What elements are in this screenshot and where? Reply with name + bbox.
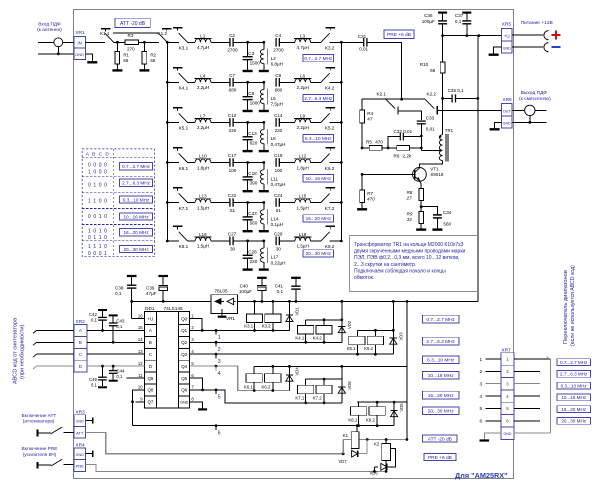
inductor L17 shunt bbox=[263, 241, 265, 248]
junction K1 segment bbox=[366, 438, 369, 441]
ground L8 bbox=[259, 150, 269, 152]
relay coil K5.2 bbox=[367, 336, 383, 345]
label box PRE +6 dB bbox=[384, 30, 414, 39]
svg-text:270: 270 bbox=[127, 46, 135, 51]
svg-text:Переключатель диапазонов: Переключатель диапазонов bbox=[563, 270, 569, 344]
ground C23 bbox=[243, 230, 253, 232]
svg-text:1,5µH: 1,5µH bbox=[197, 244, 209, 249]
ground R9 bbox=[416, 228, 426, 230]
wire XR7 pin 1 left bbox=[486, 358, 502, 360]
relay coil K3.1 bbox=[246, 314, 262, 323]
wire C31 to corner bbox=[367, 42, 402, 99]
svg-text:4: 4 bbox=[479, 394, 482, 399]
svg-text:6: 6 bbox=[218, 430, 221, 436]
wire K5.1 to L7 bbox=[188, 121, 196, 123]
wire +12V vertical drop bbox=[477, 36, 479, 302]
wire GND pin bbox=[199, 402, 203, 409]
relay coil K7.2 bbox=[316, 385, 332, 394]
svg-text:3: 3 bbox=[479, 382, 482, 387]
svg-text:2,2µH: 2,2µH bbox=[197, 125, 209, 130]
wire C7 to shunt bbox=[233, 81, 264, 83]
wire bus to K7.1 bbox=[167, 202, 179, 204]
inductor L5 shunt bbox=[263, 82, 265, 89]
svg-text:680: 680 bbox=[229, 88, 237, 93]
svg-text:C33: C33 bbox=[426, 115, 435, 120]
wire XR2 C to DD1 bbox=[87, 353, 136, 355]
table band box 0.7...2.7 MHz bbox=[120, 163, 153, 170]
wire K6.2 to right bus bbox=[330, 162, 342, 164]
svg-text:K4.2: K4.2 bbox=[325, 86, 335, 91]
capacitor C13 shunt bbox=[247, 122, 249, 136]
junction VD4 bbox=[288, 365, 291, 368]
svg-text:VD2: VD2 bbox=[347, 320, 352, 329]
switch ATT bbox=[37, 430, 39, 437]
svg-text:K6.2: K6.2 bbox=[262, 384, 271, 389]
relay contact K7.1 bbox=[173, 187, 183, 189]
svg-text:K2.2: K2.2 bbox=[427, 92, 437, 97]
junction K6.2 bbox=[271, 365, 274, 368]
svg-text:220: 220 bbox=[275, 128, 283, 133]
svg-text:1,5µH: 1,5µH bbox=[197, 205, 209, 210]
junction K5.1 bbox=[356, 353, 359, 356]
ground R2 bbox=[139, 69, 149, 71]
svg-text:GND: GND bbox=[503, 122, 512, 126]
junction K1 top bbox=[356, 424, 359, 427]
junction emitter chain bbox=[420, 205, 423, 208]
relay coil K2 bbox=[382, 443, 391, 460]
wire R10 line bbox=[442, 36, 444, 62]
svg-text:двумя скрученными медными пров: двумя скрученными медными проводами марк… bbox=[354, 249, 466, 255]
capacitor C8 shunt bbox=[247, 82, 249, 96]
ground DD1 bbox=[198, 408, 207, 410]
svg-text:1,5µH: 1,5µH bbox=[297, 205, 309, 210]
ground R1 bbox=[112, 69, 122, 71]
junction R5 R6 bbox=[361, 147, 364, 150]
wire XR7 pin 2 left bbox=[486, 370, 502, 372]
junction line B cap bbox=[112, 341, 115, 344]
svg-text:0,47µH: 0,47µH bbox=[271, 182, 286, 187]
table band box 16...20 MHz bbox=[120, 229, 153, 236]
junction K7.2 bbox=[323, 378, 326, 381]
wire emitter to R8 bbox=[420, 181, 422, 184]
junction shunt inductor row K5 bbox=[262, 121, 265, 124]
svg-text:1 1 1 0: 1 1 1 0 bbox=[88, 244, 108, 250]
wire L6 to K4.2 bbox=[311, 81, 321, 83]
svg-text:C43: C43 bbox=[116, 319, 125, 324]
band label 0.7...2.7 MHz bbox=[303, 55, 334, 62]
svg-text:GND: GND bbox=[503, 47, 512, 51]
capacitor C3 shunt bbox=[247, 42, 249, 56]
svg-text:C44: C44 bbox=[116, 369, 125, 374]
svg-text:ATT: ATT bbox=[76, 430, 84, 435]
svg-text:Q2: Q2 bbox=[181, 340, 187, 345]
svg-text:2,2k: 2,2k bbox=[403, 154, 412, 159]
inductor L2 shunt bbox=[263, 42, 265, 49]
wire input C bbox=[37, 353, 74, 355]
junction line D cap1 bbox=[101, 365, 104, 368]
table band box 2.7...6.3 MHz bbox=[120, 179, 153, 186]
label box ATT mid bbox=[423, 435, 457, 442]
band select box 16...20 MHz bbox=[557, 406, 591, 413]
svg-text:100: 100 bbox=[275, 168, 283, 173]
wire left bus bbox=[166, 42, 168, 241]
junction line A cap bbox=[101, 329, 104, 332]
wire right bus bbox=[340, 42, 342, 241]
wire C22 to shunt bbox=[233, 202, 264, 204]
svg-text:(если не используется АВСD код: (если не используется АВСD код) bbox=[570, 265, 576, 346]
note box transformer bbox=[350, 234, 478, 236]
wire L7 to C12 bbox=[211, 121, 230, 123]
junction C38 bbox=[130, 300, 133, 303]
wire K5.2 to right bus bbox=[330, 121, 342, 123]
svg-text:10: 10 bbox=[138, 385, 143, 390]
wire XR6 GND right bbox=[512, 121, 547, 123]
wire L15 to K7.2 bbox=[311, 202, 321, 204]
junction C33 C32 bbox=[420, 135, 423, 138]
wire XR5 +U right bbox=[512, 34, 543, 36]
svg-text:20...30 MHz: 20...30 MHz bbox=[428, 409, 454, 415]
switch PRE bbox=[37, 462, 39, 469]
wire L18 to K8.2 bbox=[311, 240, 321, 242]
svg-text:C22: C22 bbox=[228, 193, 237, 198]
svg-text:0,1: 0,1 bbox=[277, 289, 284, 294]
svg-text:XR6: XR6 bbox=[502, 97, 512, 103]
svg-text:C34: C34 bbox=[443, 210, 452, 215]
svg-text:0,1: 0,1 bbox=[115, 291, 122, 296]
svg-text:K7.1: K7.1 bbox=[295, 396, 304, 401]
svg-text:АВСD код от синтезатора: АВСD код от синтезатора bbox=[13, 317, 19, 384]
svg-text:10...16 MHz: 10...16 MHz bbox=[123, 214, 149, 219]
junction R2 tap bbox=[143, 41, 146, 44]
svg-text:0.7...2.7 MHz: 0.7...2.7 MHz bbox=[122, 164, 151, 169]
wire K7.1 to L13 bbox=[188, 202, 196, 204]
plus symbol bbox=[552, 34, 561, 36]
svg-text:0.7...2.7 MHz: 0.7...2.7 MHz bbox=[426, 317, 455, 323]
wire +12V bus top bbox=[443, 35, 502, 37]
svg-text:GND: GND bbox=[76, 420, 85, 424]
junction left bus row K7 bbox=[166, 201, 169, 204]
wire base bbox=[362, 173, 415, 175]
svg-text:27: 27 bbox=[406, 195, 413, 200]
wire K5 top link bbox=[358, 329, 394, 331]
svg-text:K1: K1 bbox=[343, 433, 349, 438]
junction right bus row K8 bbox=[340, 240, 343, 243]
svg-text:10...16 MHz: 10...16 MHz bbox=[428, 373, 454, 379]
junction shunt inductor row K7 bbox=[262, 201, 265, 204]
wire L4 to C7 bbox=[211, 81, 230, 83]
svg-text:4,7µH: 4,7µH bbox=[197, 45, 209, 50]
junction right bus row K6 bbox=[340, 161, 343, 164]
svg-text:220: 220 bbox=[250, 259, 258, 264]
band select box 6.3...10 MHz bbox=[557, 382, 591, 389]
svg-text:51: 51 bbox=[276, 208, 282, 213]
band select box 10...16 MHz bbox=[557, 394, 591, 401]
svg-text:30: 30 bbox=[276, 246, 282, 251]
junction VD8 bbox=[340, 365, 343, 368]
diode VD4 bbox=[288, 366, 290, 390]
svg-text:15: 15 bbox=[138, 325, 143, 330]
svg-text:OUT: OUT bbox=[503, 110, 512, 114]
ground XR1 bbox=[87, 61, 97, 63]
relay coil K6.2 bbox=[265, 374, 281, 383]
svg-text:R8: R8 bbox=[407, 190, 413, 195]
band select box 20...30 MHz bbox=[557, 418, 591, 425]
svg-text:C40: C40 bbox=[240, 283, 249, 288]
net 2 wire bbox=[199, 341, 342, 343]
svg-text:VR1: VR1 bbox=[226, 316, 235, 321]
junction K3.2 bus bbox=[272, 300, 275, 303]
svg-text:1: 1 bbox=[479, 357, 482, 362]
svg-text:XR5: XR5 bbox=[502, 21, 512, 27]
capacitor C23 shunt bbox=[247, 203, 249, 217]
svg-text:2.7...6.3 MHz: 2.7...6.3 MHz bbox=[426, 339, 455, 345]
svg-text:2700: 2700 bbox=[227, 48, 238, 53]
svg-text:K4.1: K4.1 bbox=[179, 86, 189, 91]
svg-text:68: 68 bbox=[123, 58, 128, 63]
wire input top bbox=[38, 41, 54, 43]
ground L5 bbox=[259, 110, 269, 112]
svg-text:2...3 скрутки на сантиметр.: 2...3 скрутки на сантиметр. bbox=[354, 262, 416, 268]
junction shunt cap row K6 bbox=[246, 161, 249, 164]
net 3 wire bbox=[199, 353, 393, 355]
wire XR7 pin 4 right bbox=[514, 395, 540, 397]
svg-text:C3: C3 bbox=[248, 51, 254, 56]
svg-text:Питание +12В: Питание +12В bbox=[521, 20, 553, 26]
wire C24 to L15 bbox=[279, 202, 295, 204]
band label 20...30 MHz bbox=[303, 250, 334, 257]
relay coil K8.1 bbox=[351, 407, 367, 416]
junction shunt cap row K3 bbox=[246, 41, 249, 44]
svg-text:L9: L9 bbox=[300, 113, 306, 118]
junction K7.1 bbox=[304, 401, 307, 404]
svg-text:12: 12 bbox=[138, 361, 143, 366]
junction K6.1 bbox=[253, 389, 256, 392]
svg-text:20...30 MHz: 20...30 MHz bbox=[306, 251, 332, 256]
svg-text:220: 220 bbox=[229, 128, 237, 133]
capacitor C34 bbox=[421, 207, 437, 215]
svg-text:Q9: Q9 bbox=[147, 376, 153, 381]
inductor L8 shunt bbox=[263, 122, 265, 129]
wire XR7 switch common bbox=[550, 359, 552, 433]
junction +12 drop bbox=[406, 300, 409, 303]
svg-text:C17: C17 bbox=[228, 153, 237, 158]
svg-text:6.3...10 MHz: 6.3...10 MHz bbox=[427, 358, 455, 364]
svg-text:B: B bbox=[79, 340, 82, 345]
wire XR7 pin 3 left bbox=[486, 383, 502, 385]
svg-text:(к антенне): (к антенне) bbox=[37, 27, 62, 33]
net3 number bbox=[215, 353, 218, 356]
resistor R4 bbox=[361, 99, 363, 110]
svg-text:0.7...2.7 MHz: 0.7...2.7 MHz bbox=[304, 56, 333, 61]
junction VD2 bbox=[340, 300, 343, 303]
wire XR2 A to DD1 bbox=[87, 329, 136, 331]
wire XR5 GND right bbox=[512, 46, 543, 48]
resistor R1 bbox=[116, 42, 118, 51]
svg-text:R6: R6 bbox=[394, 154, 400, 159]
svg-text:78L05: 78L05 bbox=[214, 289, 228, 295]
svg-text:Включение PRE: Включение PRE bbox=[22, 446, 58, 452]
net 6 wire bbox=[133, 425, 395, 427]
wire XR7 pin 5 left bbox=[486, 407, 502, 409]
wire K4 top link bbox=[306, 319, 342, 321]
junction Q0Q1 bbox=[201, 329, 204, 332]
svg-text:2,2µH: 2,2µH bbox=[297, 85, 309, 90]
svg-text:K6.1: K6.1 bbox=[244, 384, 253, 389]
junction K2 bottom bbox=[385, 470, 388, 473]
svg-text:C2: C2 bbox=[229, 33, 235, 38]
net 1 wire bbox=[199, 329, 290, 331]
svg-text:C37: C37 bbox=[455, 13, 464, 18]
wire ATT bypass top bbox=[113, 32, 158, 34]
svg-text:K7.2: K7.2 bbox=[325, 206, 335, 211]
relay contact K4.1 bbox=[173, 67, 183, 69]
svg-text:Q7: Q7 bbox=[147, 400, 153, 405]
svg-text:820: 820 bbox=[250, 141, 258, 146]
svg-text:GND: GND bbox=[76, 453, 85, 457]
svg-text:0,1: 0,1 bbox=[116, 324, 123, 329]
svg-text:0,01: 0,01 bbox=[426, 127, 435, 132]
svg-text:0,1: 0,1 bbox=[91, 317, 98, 322]
svg-text:ATT -20 dB: ATT -20 dB bbox=[428, 436, 452, 442]
svg-text:K3.1: K3.1 bbox=[244, 324, 253, 329]
net4 number bbox=[215, 365, 218, 368]
junction C35 to +12 drop bbox=[476, 97, 479, 100]
svg-text:K3.2: K3.2 bbox=[262, 324, 271, 329]
wire C2 to shunt bbox=[233, 41, 264, 43]
wire XR7 pin 2 right bbox=[514, 370, 540, 372]
svg-text:2700: 2700 bbox=[273, 48, 284, 53]
svg-text:K6.1: K6.1 bbox=[179, 166, 189, 171]
junction right bus row K7 bbox=[340, 201, 343, 204]
wire K7 top link bbox=[306, 378, 342, 380]
svg-text:Q6: Q6 bbox=[181, 388, 187, 393]
svg-text:2: 2 bbox=[218, 347, 221, 353]
svg-text:14: 14 bbox=[138, 337, 143, 342]
junction right bus row K4 bbox=[340, 81, 343, 84]
svg-text:100: 100 bbox=[229, 168, 237, 173]
svg-text:0 0 1 0: 0 0 1 0 bbox=[88, 214, 108, 220]
svg-text:Вход ПДФ: Вход ПДФ bbox=[38, 22, 61, 28]
band label mid 20...30 MHz bbox=[423, 407, 459, 415]
junction left bus row K3 bbox=[166, 41, 169, 44]
wire XR6 OUT right bbox=[512, 109, 525, 111]
wire C12 to shunt bbox=[233, 121, 264, 123]
svg-text:GND: GND bbox=[180, 401, 189, 405]
svg-text:C4: C4 bbox=[275, 33, 281, 38]
ground C18 bbox=[243, 190, 253, 192]
svg-text:68: 68 bbox=[150, 58, 155, 63]
svg-text:1 1 0 0: 1 1 0 0 bbox=[88, 198, 108, 204]
net 5 wire bbox=[199, 390, 342, 403]
wire L13 to C22 bbox=[211, 202, 230, 204]
svg-text:Q5: Q5 bbox=[181, 376, 187, 381]
svg-text:C41: C41 bbox=[275, 283, 284, 288]
svg-text:B: B bbox=[149, 340, 152, 345]
svg-text:C42: C42 bbox=[89, 312, 98, 317]
wire XR7 pin 6 right bbox=[514, 420, 540, 422]
junction C36 bus bbox=[441, 34, 444, 37]
junction Q7 bbox=[131, 400, 134, 403]
svg-text:обмоток.: обмоток. bbox=[354, 275, 374, 281]
svg-text:68: 68 bbox=[430, 68, 436, 73]
relay contact K3.1 bbox=[173, 27, 183, 29]
wire XR4 GND stub bbox=[86, 453, 92, 455]
junction shunt inductor row K8 bbox=[262, 240, 265, 243]
table band box 20...30 MHz bbox=[120, 246, 153, 253]
ground XR5 bbox=[494, 47, 502, 54]
table band box 10...16 MHz bbox=[120, 213, 153, 220]
svg-text:390: 390 bbox=[250, 181, 258, 186]
svg-text:0,1: 0,1 bbox=[455, 19, 462, 24]
relay contact K5.1 bbox=[173, 107, 183, 109]
junction shunt cap row K7 bbox=[246, 201, 249, 204]
svg-text:(усилителя ВЧ): (усилителя ВЧ) bbox=[23, 452, 57, 458]
ground L2 bbox=[259, 70, 269, 72]
diode VD6 bbox=[374, 466, 378, 468]
svg-text:7,5µH: 7,5µH bbox=[271, 102, 283, 107]
wire XR7 pin 3 right bbox=[514, 383, 540, 385]
svg-text:K5.1: K5.1 bbox=[179, 126, 189, 131]
svg-text:K4.1: K4.1 bbox=[295, 335, 304, 340]
wire XR7 pin 5 right bbox=[514, 407, 540, 409]
net6 number bbox=[215, 424, 218, 427]
svg-text:13: 13 bbox=[138, 349, 143, 354]
label box ATT -20 dB bbox=[115, 18, 150, 27]
wire +5V rail bbox=[132, 301, 211, 318]
svg-text:47: 47 bbox=[367, 117, 373, 122]
table ABCD codes bbox=[82, 149, 154, 257]
wire L9 to K5.2 bbox=[311, 121, 321, 123]
svg-text:Включение АТТ: Включение АТТ bbox=[22, 413, 57, 419]
wire C29 to L18 bbox=[279, 240, 295, 242]
svg-text:K3.1: K3.1 bbox=[179, 46, 189, 51]
junction C41 bbox=[295, 300, 298, 303]
svg-text:C36: C36 bbox=[424, 13, 433, 18]
svg-text:TR1: TR1 bbox=[445, 128, 454, 133]
svg-text:1,8µH: 1,8µH bbox=[297, 165, 309, 170]
wire +12 drop lower bbox=[406, 301, 408, 439]
svg-text:0,01: 0,01 bbox=[359, 47, 368, 52]
svg-text:2,2µH: 2,2µH bbox=[297, 125, 309, 130]
wire K2 node left to R4 bbox=[362, 98, 386, 100]
wire VR1 to C40 bbox=[238, 300, 478, 302]
wire K1 supply segment bbox=[343, 439, 407, 441]
svg-text:560: 560 bbox=[443, 221, 451, 226]
wire K6.1 to L10 bbox=[188, 162, 196, 164]
svg-text:R4: R4 bbox=[367, 111, 373, 116]
wire C4 to L3 bbox=[279, 41, 295, 43]
svg-text:K4.2: K4.2 bbox=[313, 335, 322, 340]
wire Q0 join Q1 bbox=[199, 319, 202, 331]
svg-text:R3: R3 bbox=[128, 33, 134, 38]
wire XR3 GND stub bbox=[86, 420, 92, 422]
svg-text:680: 680 bbox=[275, 88, 283, 93]
svg-text:GND: GND bbox=[75, 52, 84, 57]
svg-text:C24: C24 bbox=[274, 193, 283, 198]
junction input gnd bbox=[57, 52, 60, 55]
svg-text:L15: L15 bbox=[299, 194, 307, 199]
svg-text:1 0 1 0: 1 0 1 0 bbox=[88, 228, 108, 234]
junction left bus row K8 bbox=[166, 240, 169, 243]
svg-text:16...20 MHz: 16...20 MHz bbox=[306, 216, 332, 221]
svg-text:(при необходимости): (при необходимости) bbox=[20, 324, 26, 379]
junction +12 drop top bbox=[478, 34, 481, 37]
svg-text:C27: C27 bbox=[228, 232, 237, 237]
wire XR2 B to DD1 bbox=[87, 341, 136, 343]
ground C8 bbox=[243, 110, 253, 112]
svg-text:K2.1: K2.1 bbox=[377, 92, 387, 97]
svg-text:ATT -20 dB: ATT -20 dB bbox=[120, 21, 146, 27]
